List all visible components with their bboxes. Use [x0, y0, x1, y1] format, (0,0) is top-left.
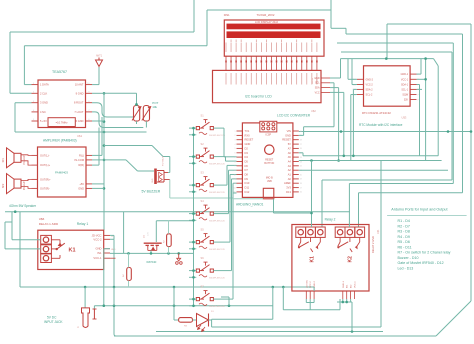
svg-text:9 GND: 9 GND: [76, 91, 84, 95]
svg-text:IN1: IN1: [97, 251, 102, 255]
svg-text:24: 24: [300, 157, 302, 159]
svg-text:ANT1: ANT1: [96, 55, 103, 58]
svg-text:26: 26: [300, 148, 302, 150]
svg-text:Relay 2: Relay 2: [325, 218, 336, 222]
svg-text:U$3: U$3: [402, 116, 407, 120]
svg-text:7: 7: [235, 157, 236, 159]
svg-text:SP1: SP1: [3, 157, 5, 162]
svg-text:VCC-1: VCC-1: [355, 281, 357, 288]
svg-text:D3: D3: [245, 151, 249, 155]
svg-text:Relay 1: Relay 1: [77, 222, 89, 226]
svg-text:2: 2: [235, 135, 236, 137]
svg-text:11: 11: [234, 174, 236, 176]
svg-text:19: 19: [300, 179, 302, 181]
svg-text:TUXGR_20X2: TUXGR_20X2: [257, 13, 275, 17]
svg-text:R(R): R(R): [79, 163, 85, 167]
svg-text:SW-MP-SEC12D: SW-MP-SEC12D: [209, 278, 225, 280]
svg-text:S4: S4: [201, 199, 205, 203]
svg-text:+5V: +5V: [79, 182, 84, 186]
svg-text:D11: D11: [245, 186, 250, 190]
svg-text:BUTTON: BUTTON: [264, 162, 274, 165]
svg-text:K1: K1: [310, 256, 316, 263]
svg-text:8 ROUT: 8 ROUT: [74, 101, 84, 105]
svg-text:D6: D6: [245, 164, 249, 168]
svg-text:ICSP: ICSP: [266, 133, 272, 136]
svg-text:2 CLK: 2 CLK: [40, 91, 47, 95]
svg-text:PAM8403: PAM8403: [55, 171, 68, 175]
svg-text:LED-A: LED-A: [311, 77, 314, 84]
svg-text:S1: S1: [201, 114, 205, 118]
svg-text:A0: A0: [288, 177, 292, 181]
svg-text:Led - D13: Led - D13: [398, 266, 414, 270]
svg-text:A4: A4: [288, 160, 292, 164]
svg-text:30: 30: [300, 131, 302, 133]
svg-text:IN-COM: IN-COM: [74, 158, 84, 162]
svg-text:F/CYN12S: F/CYN12S: [163, 155, 165, 166]
svg-text:R3: R3: [184, 326, 188, 328]
svg-text:A6: A6: [288, 151, 292, 155]
svg-text:S7: S7: [201, 285, 205, 289]
svg-text:S2: S2: [201, 142, 205, 146]
svg-text:VCC-2: VCC-2: [93, 237, 102, 241]
svg-text:SW-MP-SEC12D: SW-MP-SEC12D: [209, 164, 225, 166]
svg-text:S6: S6: [201, 256, 205, 260]
svg-text:SCL-2: SCL-2: [366, 94, 373, 97]
svg-text:5 +5V: 5 +5V: [40, 119, 47, 123]
svg-text:10: 10: [234, 170, 236, 172]
svg-text:U$4: U$4: [377, 229, 380, 234]
svg-text:SW-MP-SEC12D: SW-MP-SEC12D: [209, 306, 225, 308]
svg-text:GND-1: GND-1: [343, 280, 345, 288]
svg-text:JD-VCC: JD-VCC: [306, 280, 308, 288]
svg-text:OUT(L)-: OUT(L)-: [40, 153, 50, 157]
svg-text:4Ohm 5W Speaker: 4Ohm 5W Speaker: [9, 204, 37, 208]
svg-text:K2: K2: [348, 256, 354, 263]
svg-text:SDA: SDA: [315, 87, 320, 90]
svg-text:D4: D4: [245, 155, 249, 159]
svg-text:RX0: RX0: [245, 133, 251, 137]
svg-text:SQW: SQW: [402, 94, 408, 97]
svg-text:20: 20: [300, 174, 302, 176]
svg-text:Buzzer - D10: Buzzer - D10: [398, 256, 419, 260]
svg-text:D7: D7: [245, 168, 249, 172]
svg-text:GND: GND: [78, 186, 84, 190]
svg-text:SDA-2: SDA-2: [366, 88, 374, 91]
svg-text:1 DATA: 1 DATA: [40, 83, 49, 87]
svg-text:PULLUP: PULLUP: [24, 181, 26, 190]
svg-text:3: 3: [235, 140, 236, 142]
svg-text:4: 4: [235, 144, 236, 146]
svg-text:GND: GND: [152, 178, 154, 183]
svg-text:3V3: 3V3: [286, 186, 291, 190]
svg-text:I2C board for LCD: I2C board for LCD: [245, 95, 272, 99]
svg-text:8: 8: [235, 161, 236, 163]
svg-text:17: 17: [300, 187, 302, 189]
svg-text:15: 15: [234, 192, 236, 194]
svg-text:RELAY 2 GND: RELAY 2 GND: [371, 236, 375, 253]
svg-text:DIS1: DIS1: [224, 13, 230, 17]
svg-text:22: 22: [300, 166, 302, 168]
svg-text:27: 27: [300, 144, 302, 146]
svg-text:32K: 32K: [404, 99, 409, 102]
svg-text:U$2: U$2: [311, 109, 316, 113]
svg-text:23: 23: [300, 161, 302, 163]
svg-text:J2: J2: [77, 327, 80, 329]
svg-text:GND-1: GND-1: [401, 73, 409, 76]
svg-text:VCC-2: VCC-2: [310, 281, 312, 288]
svg-text:6 GND: 6 GND: [76, 119, 84, 123]
svg-text:R2 - D7: R2 - D7: [398, 224, 410, 228]
svg-text:JD-VCC: JD-VCC: [92, 233, 102, 237]
svg-text:SP2: SP2: [3, 183, 5, 188]
svg-text:5: 5: [235, 148, 236, 150]
svg-text:=10.7MHz: =10.7MHz: [56, 120, 69, 124]
svg-text:3 GND: 3 GND: [40, 101, 48, 105]
svg-text:S5: S5: [201, 228, 205, 232]
svg-text:Arduino Ports for Input and Ou: Arduino Ports for Input and Output: [391, 208, 447, 212]
svg-text:RTC Module with I2C interface: RTC Module with I2C interface: [359, 123, 403, 127]
svg-text:SW-MP-SEC12D: SW-MP-SEC12D: [209, 249, 225, 251]
svg-text:A1: A1: [288, 173, 292, 177]
svg-text:R1 - D4: R1 - D4: [398, 219, 410, 223]
svg-text:GND-2: GND-2: [366, 78, 374, 81]
svg-text:10 ANT: 10 ANT: [75, 83, 84, 87]
svg-text:D2: D2: [245, 146, 249, 150]
svg-text:TEA5767: TEA5767: [52, 70, 67, 74]
svg-text:Gate of Mosfet IRF540 - D12: Gate of Mosfet IRF540 - D12: [398, 261, 444, 265]
svg-text:GND-2: GND-2: [314, 280, 316, 288]
svg-text:IRF540: IRF540: [147, 260, 157, 264]
svg-text:A3: A3: [288, 164, 292, 168]
svg-text:OUT(R)-: OUT(R)-: [40, 186, 50, 190]
svg-text:5V DC: 5V DC: [47, 316, 57, 320]
svg-text:D10: D10: [245, 181, 250, 185]
svg-text:5V BUZZER: 5V BUZZER: [142, 190, 161, 194]
svg-text:AREF: AREF: [284, 181, 291, 185]
svg-text:VIN: VIN: [287, 129, 291, 133]
svg-text:RESET: RESET: [245, 138, 254, 142]
svg-text:R7 - On switch for 2 Chanel re: R7 - On switch for 2 Chanel relay: [398, 251, 451, 255]
svg-text:U$1: U$1: [77, 134, 83, 138]
svg-text:D5: D5: [245, 160, 249, 164]
svg-text:OUT(L)+: OUT(L)+: [40, 163, 51, 167]
svg-text:+12: +12: [111, 236, 115, 238]
svg-text:A7: A7: [288, 146, 292, 150]
svg-text:9: 9: [235, 166, 236, 168]
svg-text:A2: A2: [288, 168, 292, 172]
svg-text:R4 - D9: R4 - D9: [398, 235, 410, 239]
svg-text:D1: D1: [211, 311, 214, 313]
svg-text:PULLUP: PULLUP: [24, 155, 26, 164]
svg-text:10k: 10k: [152, 105, 157, 109]
svg-text:R4: R4: [123, 274, 125, 277]
svg-text:U$6: U$6: [39, 217, 45, 221]
svg-text:GND: GND: [96, 247, 102, 251]
svg-text:GND: GND: [285, 133, 291, 137]
svg-text:OUT(R)+: OUT(R)+: [40, 177, 51, 181]
svg-text:RELAY-1-SRD: RELAY-1-SRD: [39, 222, 59, 226]
svg-text:ARDUINO_NANO1: ARDUINO_NANO1: [236, 203, 264, 207]
svg-text:R(L): R(L): [79, 153, 84, 157]
svg-text:INPUT JACK: INPUT JACK: [44, 320, 63, 324]
svg-text:LED-K: LED-K: [317, 77, 319, 84]
svg-text:S3: S3: [201, 171, 205, 175]
svg-text:13: 13: [234, 183, 236, 185]
svg-text:GND: GND: [245, 142, 251, 146]
svg-text:SW-MP-SEC12D: SW-MP-SEC12D: [209, 221, 225, 223]
svg-text:G-S: G-S: [148, 232, 150, 236]
svg-text:SW-MP-SEC12D: SW-MP-SEC12D: [209, 135, 225, 137]
svg-text:VCC-1: VCC-1: [93, 256, 102, 260]
svg-text:A5: A5: [288, 155, 292, 159]
svg-text:TX1: TX1: [245, 129, 250, 133]
svg-text:SW-MP-SEC12D: SW-MP-SEC12D: [209, 192, 225, 194]
svg-text:VCC-1: VCC-1: [401, 78, 409, 81]
svg-text:AMPLIFIER (PAM8403): AMPLIFIER (PAM8403): [43, 139, 77, 143]
svg-text:14: 14: [234, 187, 236, 189]
svg-text:D12: D12: [245, 190, 250, 194]
svg-text:5V: 5V: [288, 142, 291, 146]
svg-text:4 NC: 4 NC: [40, 110, 46, 114]
svg-text:R5 - D6: R5 - D6: [398, 240, 410, 244]
svg-text:RTC DS3231 AT24C32: RTC DS3231 AT24C32: [362, 111, 391, 115]
svg-text:18: 18: [300, 183, 302, 185]
svg-text:7 LOUT: 7 LOUT: [74, 110, 83, 114]
svg-text:VCC-2: VCC-2: [366, 84, 374, 87]
svg-text:D9: D9: [245, 177, 249, 181]
svg-text:12: 12: [234, 179, 236, 181]
svg-text:R2: R2: [164, 240, 166, 243]
svg-text:1: 1: [235, 131, 236, 133]
svg-text:IN2: IN2: [351, 284, 353, 288]
svg-text:D8: D8: [245, 173, 249, 177]
svg-text:28: 28: [300, 140, 302, 142]
svg-text:USB: USB: [267, 180, 272, 183]
svg-text:K1: K1: [69, 248, 76, 254]
svg-text:IN1: IN1: [347, 284, 349, 288]
svg-text:16: 16: [300, 192, 302, 194]
svg-text:SDA-1: SDA-1: [401, 84, 409, 87]
svg-text:Q1: Q1: [144, 234, 146, 238]
svg-text:SCL-1: SCL-1: [401, 88, 408, 91]
svg-text:VCC: VCC: [315, 92, 320, 94]
svg-text:R6 - D11: R6 - D11: [398, 245, 412, 249]
svg-text:RESET: RESET: [282, 138, 291, 142]
svg-text:6: 6: [235, 153, 236, 155]
svg-text:R3 - D8: R3 - D8: [398, 230, 410, 234]
svg-text:D13: D13: [286, 190, 291, 194]
svg-text:LCD I2C CONVERTER: LCD I2C CONVERTER: [277, 114, 311, 118]
